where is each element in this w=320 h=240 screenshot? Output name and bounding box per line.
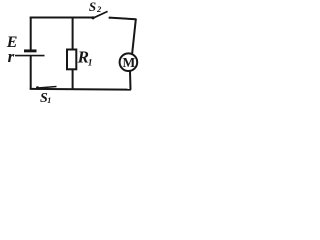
svg-text:r: r <box>8 47 15 66</box>
wire right lower <box>129 71 132 90</box>
svg-text:1: 1 <box>47 96 51 105</box>
switch S2 fixed contact <box>109 17 111 19</box>
svg-text:M: M <box>123 55 136 70</box>
wire right upper <box>132 19 136 55</box>
battery E,r negative plate (short thick) <box>24 49 37 52</box>
switch S2 pivot junction <box>91 16 94 19</box>
svg-text:2: 2 <box>96 4 102 14</box>
svg-text:S: S <box>89 0 96 14</box>
wire left upper <box>30 17 32 50</box>
wire top-right segment <box>109 18 135 20</box>
switch S2 blade (open) <box>93 11 108 18</box>
svg-text:1: 1 <box>88 58 93 68</box>
wire R1 branch lower <box>72 69 74 89</box>
wire bottom <box>30 88 131 91</box>
motor M body <box>120 53 138 71</box>
switch S1 pivot junction <box>36 86 39 89</box>
wire left lower <box>30 56 32 90</box>
wire R1 branch upper <box>72 18 74 50</box>
resistor R1 body <box>67 50 76 70</box>
wire top-left segment <box>30 17 93 19</box>
battery E,r positive plate (long thin) <box>15 55 45 57</box>
switch S1 blade (closed) <box>38 87 57 89</box>
